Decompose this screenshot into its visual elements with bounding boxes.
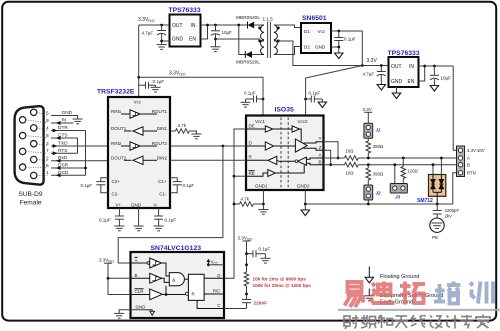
svg-text:4.7µF: 4.7µF: [142, 31, 154, 36]
svg-text:GND: GND: [172, 37, 184, 43]
ground (earth) at timing cap: [260, 258, 270, 263]
wire U4 EN tied to IN: [419, 66, 425, 81]
svg-text:PE: PE: [432, 235, 438, 240]
svg-text:3.3V-10V: 3.3V-10V: [467, 148, 485, 153]
svg-text:0.1µF: 0.1µF: [259, 247, 271, 252]
svg-text:C2+: C2+: [112, 179, 121, 184]
svg-text:10µF: 10µF: [441, 76, 452, 81]
signal name labels: [58, 110, 73, 176]
junction 3.3V node: [361, 64, 364, 67]
svg-text:CLR: CLR: [135, 289, 145, 294]
svg-text:ROUT1: ROUT1: [152, 109, 168, 114]
svg-text:RE: RE: [249, 171, 255, 176]
svg-text:J1: J1: [376, 128, 382, 133]
svg-text:0.1µF: 0.1µF: [99, 218, 111, 223]
svg-text:OUT: OUT: [172, 23, 183, 29]
svg-text:A: A: [135, 258, 138, 263]
svg-text:DOUT2: DOUT2: [111, 155, 127, 160]
wire pin9 RI with arrow: [51, 122, 74, 124]
wire pin1 DCD with arrow: [51, 174, 86, 176]
ground (earth) under GND1: [258, 210, 268, 215]
svg-text:RIN2: RIN2: [111, 141, 122, 146]
ground (earth) under TRSF GND: [134, 226, 144, 231]
capacitor 220nF timing: [224, 300, 251, 309]
svg-text:9: 9: [46, 118, 49, 124]
svg-text:7: 7: [46, 148, 49, 154]
SUB-D9 dotted leader lines: [26, 112, 48, 175]
junction DSR loop: [84, 167, 87, 170]
junction 10uF gnd / centre tap: [214, 38, 217, 41]
one-shot internal A buffer: [131, 258, 162, 268]
watermark big characters: [345, 282, 426, 308]
ground (floating) under U4 GND: [392, 93, 400, 99]
svg-text:Q: Q: [217, 273, 221, 278]
svg-text:A: A: [318, 153, 321, 158]
svg-text:4.7k: 4.7k: [178, 123, 187, 128]
ISO35 driver output Z: [304, 148, 324, 150]
capacitor C 4.7uF at U2 OUT: [160, 24, 163, 27]
wire primary centre tap to 3.3V: [274, 41, 362, 66]
svg-text:0.1µF: 0.1µF: [309, 91, 321, 96]
wire 3.3Viso to B and CLR: [108, 263, 131, 294]
ground (earth) under 10uF: [211, 47, 221, 52]
svg-text:SN6501: SN6501: [302, 15, 327, 22]
watermark rule line: [338, 309, 500, 311]
svg-text:DIN2: DIN2: [157, 155, 168, 160]
svg-text:Vcc: Vcc: [134, 100, 142, 105]
svg-text:Vcc1: Vcc1: [255, 119, 266, 124]
ground (floating) under SN6501: [335, 53, 343, 59]
wire ISO35 R to DIN2: [170, 159, 246, 161]
DTR-DSR-DCD loopback wire: [85, 131, 87, 176]
svg-text:MBR0520L: MBR0520L: [236, 60, 260, 66]
svg-text:3.3V: 3.3V: [367, 58, 378, 64]
svg-text:0.1µF: 0.1µF: [244, 91, 256, 96]
resistor R6 390ohm pulldown: [367, 163, 370, 166]
svg-text:C2-: C2-: [112, 192, 120, 197]
svg-text:ROUT2: ROUT2: [152, 141, 168, 146]
ISO35 internal receiver triangle: [298, 157, 307, 165]
svg-text:V+: V+: [116, 202, 122, 207]
buffer row1 RIN1-ROUT1: [121, 110, 157, 118]
one-shot Q output wiring: [204, 277, 224, 279]
ISO35 internal RE buffer: [246, 165, 304, 176]
overline RE: [249, 170, 255, 172]
transformer phase dots primary: [277, 27, 280, 30]
svg-text:Floating Ground: Floating Ground: [380, 274, 419, 280]
svg-text:GND2: GND2: [297, 184, 310, 189]
junction 3.3Viso rail: [137, 76, 140, 79]
capacitor 0.1uF at ISO35 Vcc1: [262, 98, 265, 101]
junction Vcc feed: [245, 263, 248, 266]
svg-text:B: B: [318, 159, 321, 164]
resistor R1 4.7k at DIN1: [170, 130, 176, 132]
svg-text:GND: GND: [391, 79, 403, 85]
svg-text:DOUT1: DOUT1: [111, 126, 127, 131]
svg-text:R: R: [192, 292, 195, 297]
svg-text:V-: V-: [154, 202, 159, 207]
wire U2 EN tied to IN: [201, 25, 208, 39]
svg-text:A: A: [467, 156, 470, 161]
ground (earth) at 0.1uF: [151, 87, 161, 92]
svg-text:4.7µF: 4.7µF: [363, 72, 375, 77]
wire pin7 RTS with arrow: [51, 152, 78, 154]
wire timing rail vertical: [246, 241, 248, 272]
wire Z jog to B line: [324, 150, 331, 164]
wire diode join vertical: [237, 24, 240, 27]
wire RTN net GND2 to connector: [305, 173, 456, 204]
one-shot internal CLR buffer: [131, 289, 163, 300]
ISO35 internal D buffer: [246, 142, 295, 150]
wire pin5 GND: [51, 116, 78, 120]
svg-text:0.1µF: 0.1µF: [344, 37, 356, 42]
svg-text:390Ω: 390Ω: [373, 172, 384, 177]
svg-text:DE: DE: [249, 124, 255, 129]
wire U2 OUT to 3.3Viso vertical: [139, 24, 170, 26]
wire TRSF GND down: [138, 208, 140, 226]
ground (floating) at Vcc2 cap: [318, 102, 326, 108]
svg-text:SUB-D9: SUB-D9: [18, 191, 43, 198]
svg-text:0.1µF: 0.1µF: [165, 218, 177, 223]
one-shot CLR wiring: [162, 286, 185, 295]
jumper J2: [364, 185, 373, 200]
wire 3.3Viso vertical down to TRSF Vcc: [138, 25, 140, 97]
svg-text:120Ω: 120Ω: [407, 169, 418, 174]
svg-text:Z: Z: [319, 145, 322, 150]
SUB-D9 pin holes column left (pins 9,8,7,6): [19, 117, 25, 171]
transformer T1 core: [267, 22, 269, 59]
wire DE/RE net from one-shot Q: [224, 129, 246, 278]
ground (earth) under 4.7uF: [157, 45, 167, 50]
wire 3.3V diagonal to ISO35 Vcc2: [306, 66, 363, 116]
svg-text:EN: EN: [408, 79, 415, 85]
resistor R5 390ohm pullup: [367, 138, 369, 141]
ground PE symbol: [430, 218, 444, 232]
svg-text:4.7k: 4.7k: [241, 197, 250, 202]
svg-text:5: 5: [46, 110, 49, 116]
wire U4 IN to field supply: [419, 65, 454, 67]
wire pin8 CTS with arrow: [51, 137, 78, 139]
svg-text:TPS76333: TPS76333: [388, 50, 420, 57]
transformer T1 primary winding: [274, 25, 277, 55]
one-shot C wiring: [197, 300, 224, 308]
svg-text:ISO35: ISO35: [275, 107, 294, 114]
buffer row2 DIN1-DOUT1: [124, 127, 157, 135]
jumper J3: [394, 165, 396, 184]
svg-text:J2: J2: [376, 191, 382, 196]
wire pin6 DSR with arrow: [51, 167, 86, 169]
svg-text:0.1µF: 0.1µF: [183, 183, 195, 188]
wire SN6501 GND to cap: [331, 46, 339, 48]
wire U2 GND to cap node: [162, 40, 170, 42]
resistor R8 timing: [244, 272, 249, 286]
svg-text:TPS76333: TPS76333: [169, 7, 201, 14]
svg-text:0.1µF: 0.1µF: [81, 183, 93, 188]
svg-text:OUT: OUT: [391, 64, 402, 70]
svg-text:220nF: 220nF: [254, 301, 268, 306]
ground (earth) at Vcc1 cap: [241, 102, 251, 107]
capacitor C1 0.1uF flying cap: [170, 178, 182, 193]
svg-text:10Ω: 10Ω: [346, 149, 355, 154]
legend earth ground: [368, 289, 370, 296]
legend floating ground: [368, 267, 370, 278]
svg-text:100k for 20ms @ 1200 bps: 100k for 20ms @ 1200 bps: [253, 283, 312, 288]
svg-text:MBR0520L: MBR0520L: [236, 15, 260, 21]
diode D4 MBR0520L bottom: [245, 51, 264, 58]
wire ISO35 GND1: [262, 190, 264, 210]
ground (earth) at DB9 pin5: [73, 119, 83, 124]
svg-text:J3: J3: [395, 195, 401, 200]
ISO35 driver output Y: [304, 142, 324, 143]
transformer T1 secondary winding: [261, 25, 264, 55]
connector J4 field terminal: [457, 146, 465, 177]
isolation barrier dashed lines: [280, 118, 282, 189]
regulator U2 TPS76333 (isolated side): [170, 15, 201, 47]
buffer row3 RIN2-ROUT2: [121, 142, 157, 150]
wire pin4 DTR with arrow: [51, 130, 86, 132]
one-shot internal flip-flop: [188, 274, 204, 300]
svg-text:2: 2: [46, 156, 49, 162]
one-shot internal Vcc arrow: [207, 263, 210, 266]
svg-text:10µF: 10µF: [222, 30, 233, 35]
ground (earth) under V+ cap: [114, 226, 124, 231]
wire A line with resistor R3 10ohm: [324, 157, 345, 159]
svg-text:3: 3: [46, 141, 49, 147]
svg-text:1: 1: [46, 170, 49, 176]
buffer row4 DIN2-DOUT2: [124, 156, 157, 164]
transceiver U1 TRSF3232E: [108, 97, 170, 208]
svg-text:3.3V: 3.3V: [363, 107, 372, 112]
svg-text:IN: IN: [191, 23, 196, 29]
transceiver U3 SN6501: [301, 23, 331, 53]
one-shot U6 SN74LVC1G123: [131, 252, 225, 318]
wire ISO35 GND2: [304, 190, 306, 210]
TVS SM712: [440, 158, 442, 175]
svg-text:Vcc2: Vcc2: [298, 119, 309, 124]
svg-text:Female: Female: [20, 200, 42, 207]
svg-text:B: B: [135, 273, 138, 278]
wire pin2 RxD from DOUT2 with arrow: [51, 160, 108, 162]
one-shot internal AND gate: [162, 263, 189, 286]
one-shot internal B buffer: [131, 273, 162, 283]
svg-text:Vcc: Vcc: [318, 29, 326, 34]
svg-text:6: 6: [46, 163, 49, 169]
ground (floating) under GND2: [301, 210, 309, 216]
wire U2 IN rail: [201, 24, 248, 26]
svg-text:C1-: C1-: [159, 192, 167, 197]
svg-text:4: 4: [46, 125, 49, 131]
one-shot GND pin wiring: [119, 310, 146, 314]
wire SN6501 Vcc to 3.3V node: [331, 31, 362, 66]
wire 3.3Viso rail to ISO35 Vcc1: [139, 77, 263, 115]
svg-text:1:1.5: 1:1.5: [263, 17, 274, 22]
ISO35 internal driver triangle: [295, 139, 307, 152]
svg-text:D2: D2: [304, 45, 310, 50]
svg-text:DIN1: DIN1: [157, 126, 168, 131]
svg-text:Y: Y: [318, 136, 321, 141]
svg-text:GND: GND: [131, 202, 142, 207]
svg-text:TRSF3232E: TRSF3232E: [97, 89, 135, 96]
svg-text:EN: EN: [189, 37, 196, 43]
wire field 3.3V-10V vertical to connector: [453, 66, 456, 150]
svg-text:0.1µF: 0.1µF: [153, 79, 165, 84]
jumper J1: [364, 123, 373, 138]
resistor R2 4.7k RE pulldown: [234, 203, 240, 205]
wire Y jog to A line: [324, 142, 339, 158]
capacitor 0.1uF at one-shot Vcc: [245, 252, 248, 255]
svg-text:C1+: C1+: [158, 179, 167, 184]
SUB-D9 pin holes column right (pins 5,4,3,2,1): [31, 109, 37, 178]
pin numbers: [46, 110, 49, 176]
ISO35 internal DE buffer side2: [292, 126, 301, 142]
ISO35 internal R output buffer: [246, 156, 295, 164]
wire pin3 TXD to RIN2 with arrow: [51, 145, 108, 147]
wire primary bottom to D2: [274, 47, 301, 55]
svg-text:GND: GND: [315, 45, 326, 50]
svg-text:8: 8: [46, 133, 49, 139]
capacitor 2200pF 2kV: [433, 204, 442, 218]
junction Vcc2 cap: [304, 98, 307, 101]
transformer phase dots secondary: [258, 27, 261, 30]
svg-text:GND: GND: [136, 304, 147, 309]
ground (floating) under 10uF: [430, 86, 438, 92]
svg-text:GND1: GND1: [255, 184, 268, 189]
capacitor 0.1uF at V+: [115, 208, 124, 226]
wire secondary centre tap to ground node: [216, 39, 265, 41]
diode D3 MBR0520L top: [248, 22, 265, 29]
regulator U4 TPS76333 (bus side): [389, 57, 419, 87]
wire B line with resistor R4 10ohm: [324, 164, 345, 166]
ISO35 internal DE buffer side1: [246, 126, 292, 132]
capacitor C 10uF at U4 IN: [433, 65, 436, 68]
svg-text:IN: IN: [409, 64, 414, 70]
svg-text:390Ω: 390Ω: [373, 144, 384, 149]
svg-text:2200pF: 2200pF: [445, 208, 460, 213]
ground (earth) at R1: [191, 134, 201, 139]
ISO35 receiver inputs A B: [306, 158, 323, 159]
wire 3.3V to U4 OUT: [362, 65, 388, 67]
wire primary top to D1: [274, 25, 301, 28]
watermark slogan characters: [344, 315, 490, 330]
svg-text:B: B: [467, 163, 470, 168]
capacitor C 10uF at U2 IN: [214, 24, 217, 27]
isolator U5 ISO35: [246, 116, 324, 191]
svg-text:RIN1: RIN1: [111, 109, 122, 114]
capacitor C 4.7uF at U4 OUT: [380, 64, 383, 67]
wire RE pin tie: [234, 175, 246, 177]
ground (earth) under V- cap: [154, 226, 164, 231]
svg-text:SN74LVC1G123: SN74LVC1G123: [151, 245, 202, 252]
wire D net to one-shot A input: [222, 145, 225, 148]
svg-text:2kV: 2kV: [445, 214, 453, 219]
capacitor 0.1uF on 3.3Viso at TRSF Vcc: [139, 82, 156, 89]
capacitor 0.1uF at V-: [154, 208, 163, 226]
capacitor 0.1uF at SN6501 Vcc: [337, 30, 340, 33]
wire U4 GND down: [396, 87, 398, 93]
resistor R7 120ohm termination: [402, 157, 405, 160]
ground (earth) at one-shot GND: [114, 313, 124, 318]
svg-text:R/C: R/C: [213, 288, 222, 293]
capacitor 0.1uF at ISO35 Vcc2: [306, 96, 323, 103]
capacitor C2 0.1uF flying cap: [96, 178, 108, 193]
svg-text:RTN: RTN: [467, 171, 476, 176]
svg-text:10Ω: 10Ω: [346, 171, 355, 176]
svg-text:D1: D1: [304, 29, 310, 34]
one-shot R/C wiring: [204, 293, 224, 295]
wire ROUT2 to ISO35 D: [170, 145, 246, 147]
CTS-RTS loopback wire: [77, 138, 79, 153]
svg-text:SM712: SM712: [417, 198, 433, 204]
svg-text:10k for 2ms @ 9600 bps: 10k for 2ms @ 9600 bps: [253, 276, 307, 281]
ground (floating) under 4.7uF: [377, 85, 385, 91]
connector J5 SUB-D9 female shell: [15, 106, 44, 184]
